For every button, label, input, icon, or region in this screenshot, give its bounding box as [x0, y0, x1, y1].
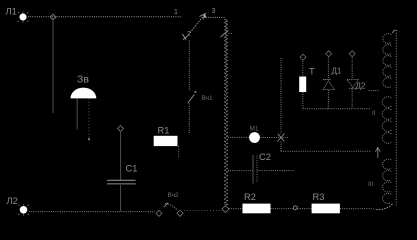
wire bottom bus mid	[184, 210, 222, 212]
wire coil tap to capacitor C2	[228, 170, 253, 172]
wire bottom bus left	[29, 211, 155, 213]
svg-text:R3: R3	[313, 192, 325, 202]
svg-text:Л1: Л1	[6, 7, 17, 17]
wire tap to microphone M1	[228, 136, 249, 138]
resistor R2	[243, 204, 271, 214]
node junction on top bus	[50, 14, 56, 20]
switch arm arrowhead top	[200, 14, 206, 20]
transformer winding III	[383, 159, 392, 169]
transformer tap upper	[369, 90, 380, 92]
svg-text:III: III	[368, 181, 374, 188]
connector pin top of C1 branch	[118, 126, 124, 132]
bell Zv dome	[71, 88, 97, 99]
wire top bus	[28, 16, 182, 18]
wire branch down from handset (left pin)	[280, 58, 282, 134]
svg-text:3: 3	[212, 8, 216, 15]
switch arm	[187, 15, 205, 38]
capacitor C2 plates	[252, 155, 254, 184]
wire C1 branch upper	[120, 131, 122, 180]
wire D1 lower	[327, 90, 329, 109]
svg-text:Зв: Зв	[77, 74, 89, 86]
svg-text:М1: М1	[250, 126, 259, 133]
diode D2	[347, 79, 358, 87]
switch pivot dot	[204, 15, 206, 17]
wire to transformer lower tap	[281, 150, 371, 152]
wire C1 branch lower	[120, 185, 122, 212]
svg-text:С1: С1	[126, 164, 138, 174]
svg-text:R2: R2	[244, 192, 256, 202]
switch arm arrowhead bottom	[183, 34, 187, 40]
transformer winding II	[382, 97, 391, 108]
wire T branch lower	[302, 92, 304, 109]
svg-text:Д2: Д2	[356, 82, 366, 91]
winding III bottom lead	[375, 204, 393, 210]
wire D2 lower	[351, 89, 353, 109]
wire drop from L1 bus	[52, 18, 54, 113]
bell leg right	[88, 98, 90, 138]
wiper arrow	[375, 147, 380, 158]
wire mid bus right side	[303, 108, 370, 110]
wire T branch upper	[302, 61, 304, 77]
svg-text:Т: Т	[309, 67, 315, 77]
wire switch-branch lower	[188, 104, 190, 135]
jack Vch2 pins	[156, 210, 162, 216]
svg-text:1: 1	[174, 9, 178, 16]
svg-text:II: II	[372, 110, 376, 117]
terminal L1	[19, 13, 26, 20]
bell leg left	[76, 98, 78, 129]
svg-text:Л2: Л2	[7, 196, 18, 206]
wire C2 right	[258, 170, 295, 172]
svg-text:Вч2: Вч2	[168, 192, 180, 199]
svg-text:Вч1: Вч1	[202, 95, 214, 102]
microphone M1	[249, 132, 260, 143]
transformer core	[395, 30, 397, 207]
coil column bottom pin diamond	[222, 205, 229, 212]
wire bottom bus right	[229, 208, 243, 210]
transformer winding I	[383, 34, 391, 44]
wire D2 upper	[351, 58, 353, 80]
connector pin top of D2 branch	[349, 51, 355, 57]
connector pin top of D1 branch	[326, 51, 332, 57]
svg-text:R1: R1	[158, 126, 170, 136]
diode D1	[323, 79, 331, 81]
wire M1 to junction	[261, 137, 289, 139]
tap slash on coil column	[221, 31, 229, 38]
wire switch-branch upper	[188, 40, 190, 91]
junction X	[278, 134, 285, 142]
resistor R3	[312, 204, 340, 214]
wire from contact 3 to coil top	[206, 16, 226, 18]
capacitor C1 plates	[107, 179, 136, 182]
wire D1 upper	[327, 58, 329, 80]
resistor R1	[154, 136, 178, 146]
wire R1 right stub	[178, 146, 180, 158]
junction dot on bottom bus	[293, 206, 297, 210]
jack Vch2 arc	[165, 204, 178, 211]
telephone T body	[299, 77, 306, 93]
terminal L2	[20, 206, 28, 214]
svg-text:С2: С2	[259, 152, 271, 162]
connector pin top of T branch	[300, 54, 306, 60]
switch Vch1 arm	[188, 94, 195, 103]
coil column (tapped winding)	[225, 19, 228, 205]
svg-text:Д1: Д1	[332, 67, 342, 76]
